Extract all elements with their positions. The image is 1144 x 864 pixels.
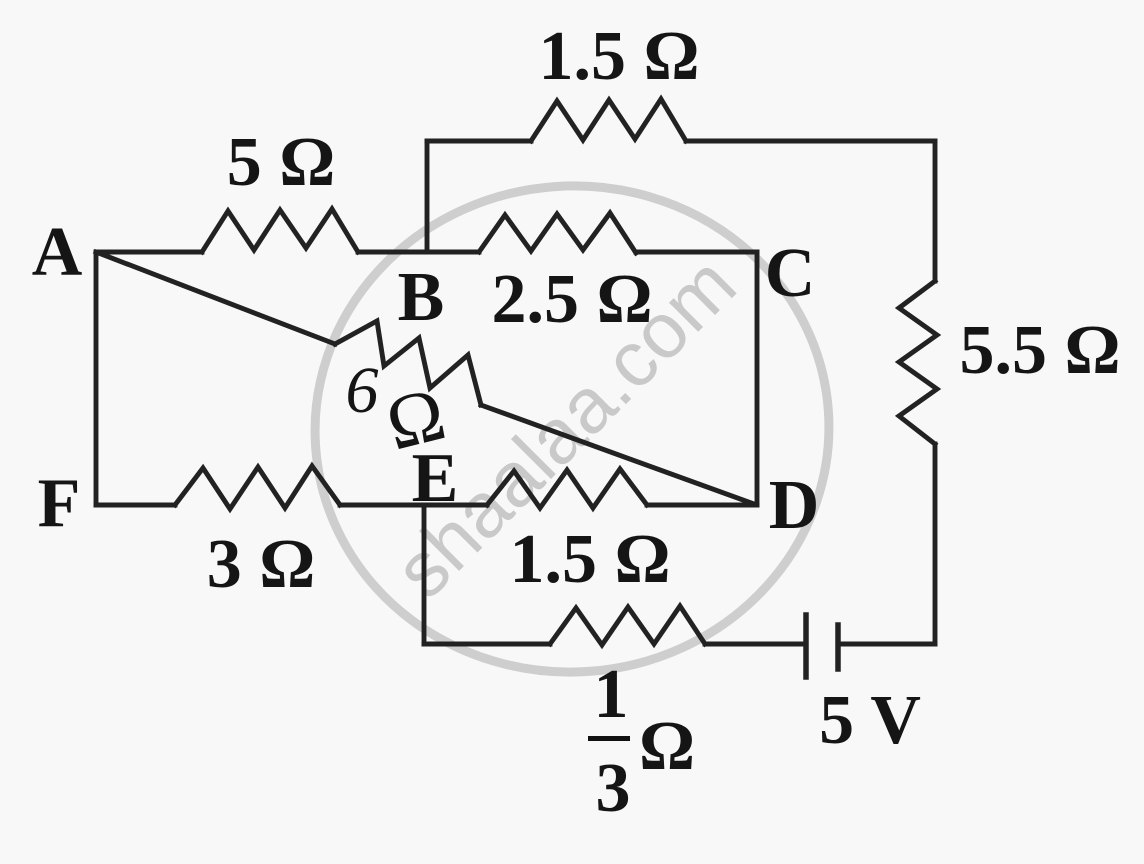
resistor R5 3 ohm	[175, 466, 340, 509]
wire F to R5	[96, 503, 175, 508]
wire E-corner to R4	[424, 642, 550, 647]
wire R7 to C	[636, 250, 757, 255]
wire E down	[422, 505, 427, 644]
wire B up to top loop	[425, 141, 430, 252]
wire B to R7	[427, 250, 479, 255]
svg-text:A: A	[32, 214, 83, 291]
svg-text:5 Ω: 5 Ω	[227, 124, 336, 201]
svg-text:C: C	[765, 235, 816, 312]
svg-text:6: 6	[346, 354, 379, 427]
svg-text:1.5 Ω: 1.5 Ω	[538, 18, 699, 95]
svg-text:1: 1	[594, 656, 629, 733]
resistor R4 1/3 ohm	[550, 606, 705, 645]
wire R6 to D	[647, 503, 757, 508]
wire R5 to E	[340, 503, 424, 508]
wire E to R6	[424, 503, 487, 508]
svg-text:5.5 Ω: 5.5 Ω	[959, 312, 1120, 389]
svg-text:2.5 Ω: 2.5 Ω	[491, 261, 652, 338]
wire C to D right of rectangle	[755, 252, 760, 505]
svg-text:D: D	[769, 467, 820, 544]
resistor R3 5.5 ohm	[899, 281, 937, 444]
wire A to R1	[96, 250, 202, 255]
wire right side top	[933, 141, 938, 281]
wire R2 to top-right corner	[686, 139, 935, 144]
wire B-corner to R2	[427, 139, 531, 144]
svg-text:F: F	[38, 465, 81, 542]
resistor R6 1.5 ohm bottom	[487, 469, 647, 508]
resistor R2 1.5 ohm top	[531, 99, 686, 141]
wire R1 to B	[358, 250, 427, 255]
svg-text:Ω: Ω	[639, 708, 695, 785]
svg-text:5 V: 5 V	[819, 682, 921, 759]
svg-text:3 Ω: 3 Ω	[207, 526, 316, 603]
battery BT1 positive plate	[803, 615, 809, 677]
svg-text:B: B	[398, 259, 445, 336]
wire A diagonal to R8	[96, 252, 335, 344]
wire R4 to battery	[705, 642, 806, 647]
wire R8 diagonal to D	[481, 405, 754, 504]
wire A to F left side	[94, 252, 99, 505]
resistor R8 6 ohm diagonal	[335, 321, 481, 405]
value label 1/3 ohm: fraction bar	[588, 736, 630, 741]
svg-text:3: 3	[596, 750, 631, 827]
resistor R1 5 ohm	[202, 209, 358, 252]
wire right side bottom	[933, 444, 938, 644]
battery BT1 negative plate	[835, 625, 841, 669]
wire battery to bottom-right corner	[838, 642, 935, 647]
resistor R7 2.5 ohm	[479, 213, 636, 253]
svg-text:1.5 Ω: 1.5 Ω	[509, 521, 670, 598]
